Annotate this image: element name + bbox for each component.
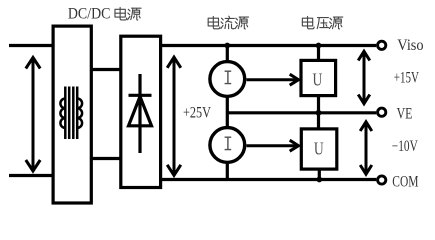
- wire I2 to bottom rail: [226, 163, 229, 180]
- junction dot bottom rail / U2: [316, 177, 322, 183]
- input voltage double arrow: [26, 58, 40, 172]
- terminal Viso: [378, 41, 386, 49]
- middle rail (VE): [227, 111, 376, 114]
- wire bottom-left input: [9, 174, 53, 177]
- label 源 of 电压源: [329, 17, 342, 29]
- svg-text:−10V: −10V: [392, 138, 419, 155]
- svg-text:U: U: [313, 69, 323, 89]
- svg-text:COM: COM: [392, 174, 418, 191]
- current source I1: [210, 62, 245, 97]
- label 压 of 电压源: [317, 18, 328, 29]
- label 电 of 电压源: [302, 16, 314, 28]
- primary winding: [64, 87, 67, 140]
- +25V measurement double arrow: [167, 57, 181, 175]
- voltage source U2 box: [301, 129, 337, 169]
- wire U2 to bottom rail: [318, 169, 321, 179]
- DC/DC converter box (transformer): [53, 26, 91, 203]
- rectifier box: [121, 36, 161, 187]
- current source I2: [210, 128, 245, 163]
- label 源 of DC/DC电源: [128, 8, 141, 20]
- core: [68, 87, 71, 140]
- svg-text:+15V: +15V: [394, 70, 420, 87]
- label 电 of DC/DC电源: [115, 7, 127, 19]
- svg-text:Viso: Viso: [397, 37, 424, 54]
- wire top rail to U1: [317, 46, 320, 61]
- junction dot top rail / I string: [224, 43, 230, 49]
- diode D1: [129, 74, 152, 153]
- svg-text:+25V: +25V: [183, 105, 212, 122]
- label 流 of 电流源: [221, 16, 234, 29]
- top rail (+): [161, 44, 377, 47]
- label I of I2: [225, 137, 232, 149]
- arrow I2 to U2: [247, 140, 299, 151]
- voltage source U1 box: [301, 60, 336, 95]
- svg-text:VE: VE: [397, 105, 413, 122]
- label 源 of 电流源: [235, 17, 248, 29]
- label 电 of 电流源: [208, 16, 220, 28]
- label I of I1: [225, 71, 232, 83]
- -10V measurement double arrow: [360, 122, 372, 174]
- +15V measurement double arrow: [358, 51, 370, 103]
- svg-text:DC/DC: DC/DC: [68, 6, 111, 23]
- transformer T1: [60, 87, 82, 140]
- arrow I1 to U1: [247, 74, 299, 85]
- svg-text:U: U: [314, 138, 324, 158]
- terminal VE: [378, 108, 386, 116]
- wire U1 to U2 through VE rail: [317, 96, 320, 129]
- terminal COM: [378, 176, 386, 184]
- wire I1 to I2: [226, 97, 229, 127]
- wire top-left input: [9, 44, 53, 47]
- wire transformer-rectifier upper: [91, 68, 120, 71]
- bottom rail (COM): [161, 178, 377, 181]
- junction dot VE rail / U string: [316, 110, 322, 116]
- wire transformer-rectifier lower: [91, 157, 120, 160]
- junction dot top rail / U1: [316, 43, 322, 49]
- secondary winding: [76, 87, 79, 140]
- wire top rail to I1: [226, 46, 229, 62]
